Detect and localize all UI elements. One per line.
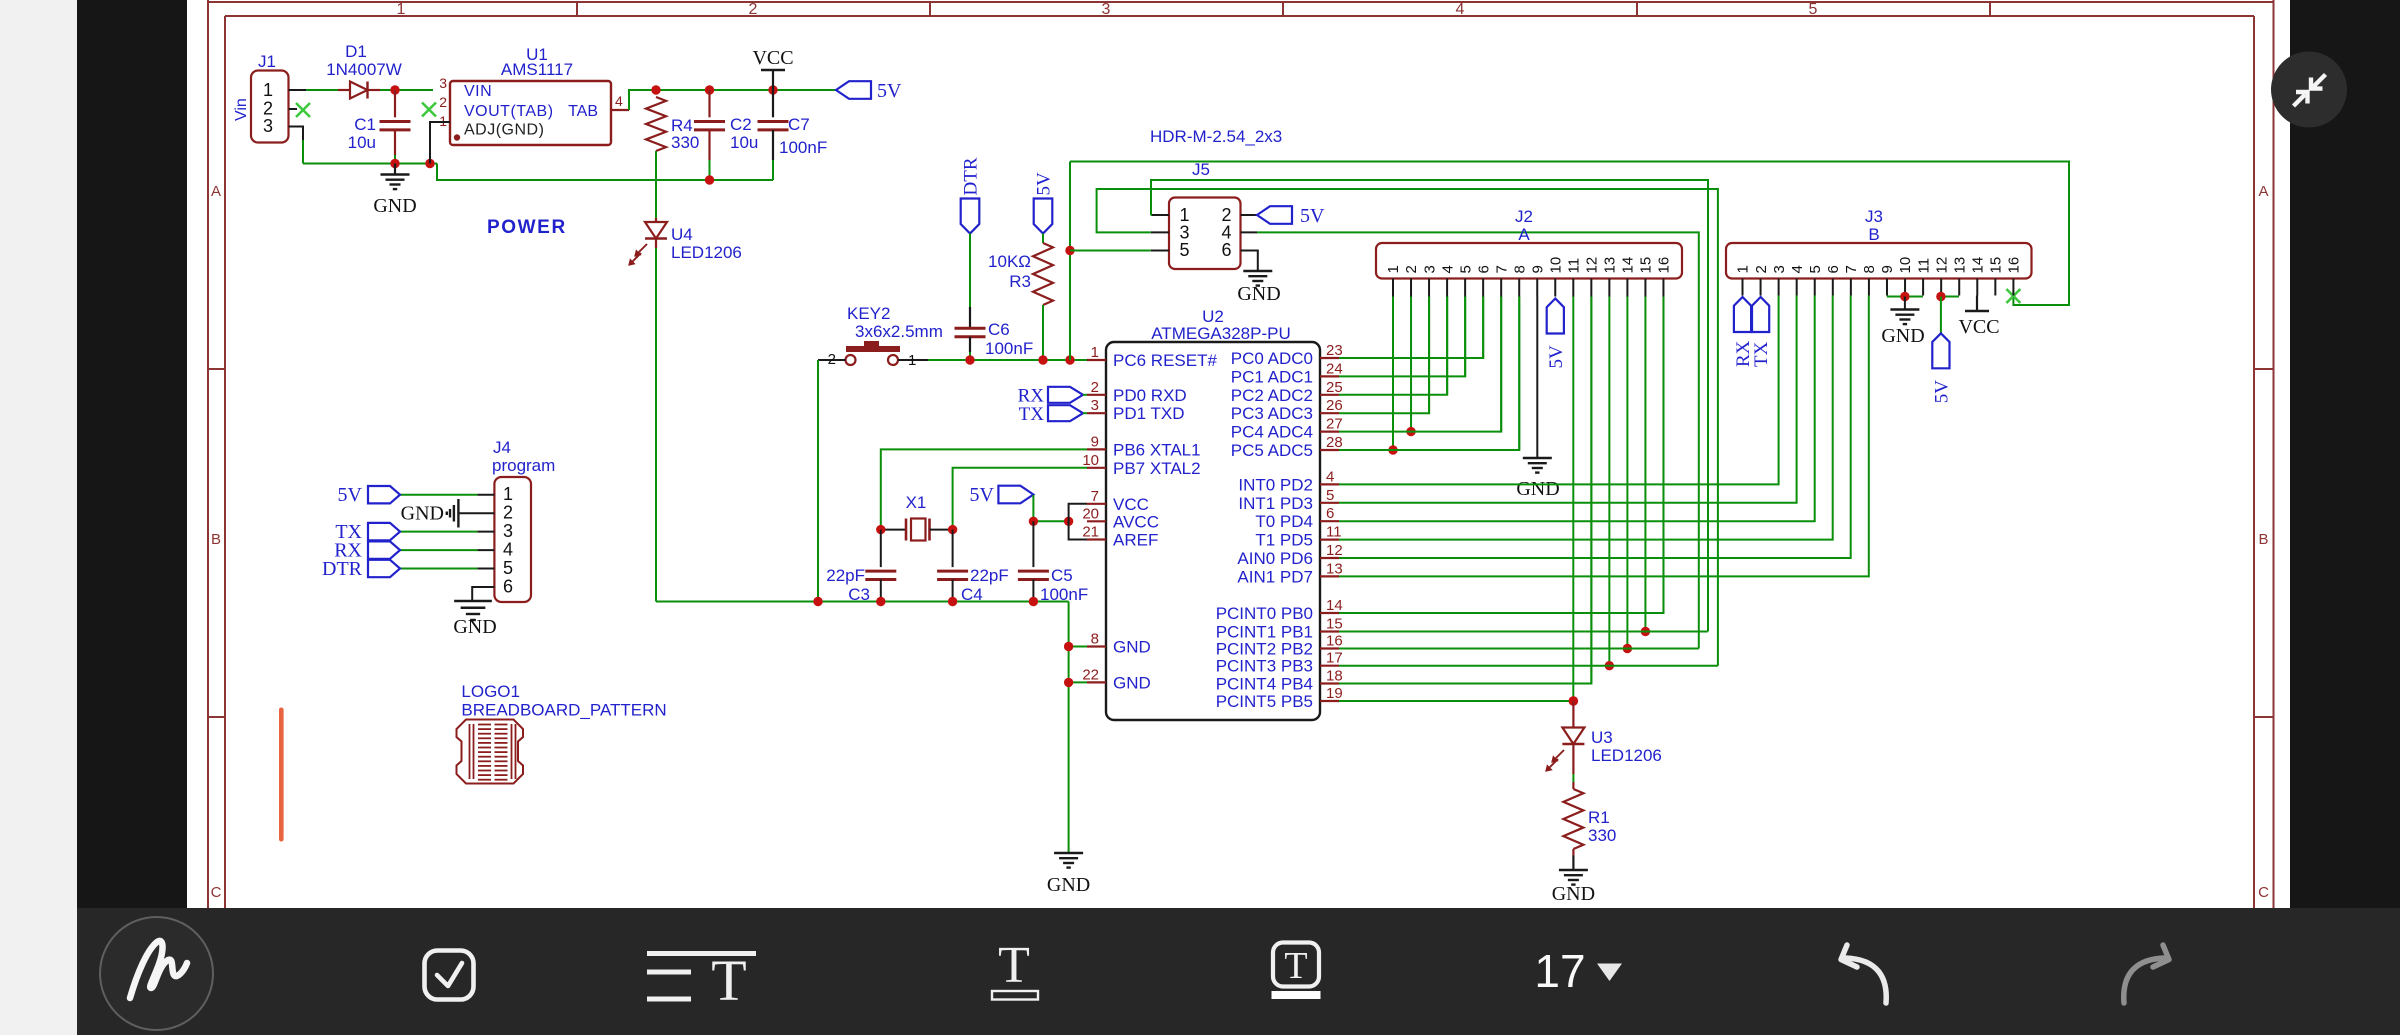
label GND below R1: [1552, 883, 1595, 905]
wire U2 GND8: [1069, 646, 1087, 648]
svg-text:C3: C3: [848, 585, 870, 604]
label U3: [1591, 728, 1613, 747]
net flag 5V at power rail: [836, 80, 902, 102]
svg-text:J2: J2: [1515, 207, 1533, 226]
svg-text:GND: GND: [1047, 874, 1090, 896]
VCC symbol at J3.14: [1965, 296, 1989, 312]
svg-text:17: 17: [1326, 650, 1343, 667]
J4 pin2 GND tie: [447, 499, 495, 528]
svg-text:PC5 ADC5: PC5 ADC5: [1231, 441, 1313, 460]
wire PC1 to J2.5: [1339, 297, 1465, 377]
net flag TX at U2.3: [1019, 404, 1087, 425]
label 10K ohm: [988, 252, 1031, 271]
svg-text:4: 4: [615, 93, 623, 109]
wire J2 pin 3: [1428, 297, 1430, 414]
junction U1 ADJ: [425, 159, 434, 168]
svg-text:5: 5: [1809, 1, 1818, 18]
net flag RX at U2.2: [1018, 386, 1087, 407]
wire PB0 to J2.16: [1339, 297, 1664, 614]
U1 pin number 4: [615, 93, 623, 109]
wire J2 pin 12: [1590, 297, 1592, 684]
svg-text:5V: 5V: [1931, 380, 1952, 404]
wire J2 pin 7: [1500, 297, 1502, 432]
svg-text:Vin: Vin: [233, 98, 250, 121]
svg-text:5V: 5V: [877, 80, 902, 102]
svg-text:11: 11: [1566, 258, 1583, 274]
U2 pin 5 INT1 PD3: [1238, 487, 1339, 513]
svg-text:PB7 XTAL2: PB7 XTAL2: [1113, 459, 1201, 478]
svg-text:10: 10: [1082, 452, 1099, 469]
svg-text:PB6 XTAL1: PB6 XTAL1: [1113, 440, 1201, 459]
svg-text:22pF: 22pF: [970, 566, 1009, 585]
svg-text:5V: 5V: [1300, 205, 1325, 227]
label KEY2: [847, 304, 890, 323]
svg-text:5: 5: [1457, 265, 1474, 273]
label BREADBOARD_PATTERN: [461, 701, 666, 720]
J4 pin4 wire: [400, 549, 494, 551]
net flag 5V at J2.10: [1546, 299, 1567, 369]
svg-text:B: B: [211, 531, 221, 548]
label J4: [493, 438, 511, 457]
resistor R1 330: [1563, 782, 1583, 856]
label ATMEGA328P-PU: [1151, 324, 1291, 343]
svg-text:LED1206: LED1206: [671, 243, 742, 262]
label R4: [671, 116, 693, 135]
net flag 5V at J3.12: [1931, 333, 1952, 403]
label 22pF C4: [970, 566, 1009, 585]
svg-text:7: 7: [1091, 488, 1099, 505]
junction C6 reset: [965, 355, 974, 364]
svg-text:BREADBOARD_PATTERN: BREADBOARD_PATTERN: [461, 701, 666, 720]
U2 pin 20 AVCC: [1082, 505, 1159, 531]
label LED1206 U4: [671, 243, 742, 262]
svg-text:A: A: [2258, 183, 2268, 200]
junction AVCC: [1064, 517, 1073, 526]
label GND at C1: [373, 195, 416, 217]
wire J2 pin 6: [1482, 297, 1484, 359]
svg-text:4: 4: [1326, 468, 1334, 485]
svg-text:330: 330: [1588, 826, 1616, 845]
svg-text:9: 9: [1091, 433, 1099, 450]
svg-text:10: 10: [1547, 257, 1564, 274]
U2 pin 7 VCC: [1087, 488, 1149, 514]
capacitor C3 22pF: [865, 530, 896, 602]
wire PC0 to J2.6: [1339, 297, 1483, 359]
svg-text:23: 23: [1326, 342, 1343, 359]
svg-text:5V: 5V: [1034, 172, 1055, 196]
svg-text:C5: C5: [1051, 566, 1073, 585]
header J4: [494, 477, 531, 602]
svg-text:GND: GND: [1881, 325, 1924, 347]
label GND below U2: [1047, 874, 1090, 896]
label LOGO1: [461, 682, 520, 701]
label GND at J4.2: [401, 503, 444, 525]
junction X1 right: [948, 525, 957, 534]
net flag 5V at J4.1: [338, 484, 400, 506]
svg-text:PD0 RXD: PD0 RXD: [1113, 386, 1187, 405]
junction C2 top: [705, 85, 714, 94]
wire reset top run to J3.16: [1070, 162, 2069, 306]
U2 pin 28 PC5 ADC5: [1231, 434, 1343, 460]
svg-text:3: 3: [1771, 265, 1788, 273]
junction GND8: [1064, 642, 1073, 651]
svg-text:28: 28: [1326, 434, 1343, 451]
left black bar: [77, 0, 187, 908]
net flag TX at J3.2: [1751, 297, 1772, 367]
svg-text:GND: GND: [1237, 283, 1280, 305]
svg-text:26: 26: [1326, 397, 1343, 414]
wire J2 pin 5: [1464, 297, 1466, 377]
svg-text:TX: TX: [1751, 341, 1772, 367]
svg-text:5V: 5V: [970, 484, 995, 506]
svg-text:PC6 RESET#: PC6 RESET#: [1113, 351, 1217, 370]
svg-text:10: 10: [1897, 257, 1914, 274]
U2 pin 11 T1 PD5: [1255, 524, 1341, 550]
svg-text:12: 12: [1933, 257, 1950, 274]
right black bar: [2290, 0, 2400, 908]
wire U2 GND22: [1069, 681, 1087, 683]
label J1: [258, 52, 276, 71]
toolbar text underline icon: [992, 937, 1038, 1000]
header J5: [1151, 198, 1258, 272]
label GND at J5: [1237, 283, 1280, 305]
toolbar redo button: [2124, 945, 2169, 1003]
svg-text:PC4 ADC4: PC4 ADC4: [1231, 423, 1313, 442]
U2 pin 10 PB7 XTAL2: [1082, 452, 1200, 478]
wire PD2 to J3.3: [1339, 296, 1779, 485]
KEY2 pin label 1: [908, 352, 916, 369]
label J5: [1192, 160, 1210, 179]
label X1: [906, 493, 927, 512]
svg-text:J5: J5: [1192, 160, 1210, 179]
svg-text:POWER: POWER: [487, 217, 567, 238]
svg-text:PCINT2 PB2: PCINT2 PB2: [1216, 640, 1313, 659]
svg-text:9: 9: [1879, 265, 1896, 273]
U2 pin 9 PB6 XTAL1: [1087, 433, 1201, 459]
U1 ADJ pin wire: [430, 122, 450, 164]
junction C5 GND rail: [1029, 597, 1038, 606]
ground symbol below R1: [1559, 856, 1588, 885]
svg-text:6: 6: [503, 576, 513, 596]
label R3: [1009, 272, 1031, 291]
svg-text:14: 14: [1620, 257, 1637, 274]
svg-text:24: 24: [1326, 360, 1343, 377]
left gray strip: [0, 0, 77, 1035]
svg-text:A: A: [211, 183, 221, 200]
svg-text:13: 13: [1602, 257, 1619, 274]
wire PC3 to J2.3: [1339, 297, 1429, 414]
wire J2 pin 1: [1388, 297, 1397, 455]
U2 pin 18 PCINT4 PB4: [1216, 668, 1343, 694]
wire DTR to C6: [969, 234, 971, 308]
svg-text:R3: R3: [1009, 272, 1031, 291]
U1 pin number 3: [439, 75, 447, 91]
junction X1 left: [876, 525, 885, 534]
svg-text:11: 11: [1326, 524, 1342, 541]
header J2: [1376, 243, 1682, 279]
MCU U2 ATMEGA328P-PU: [1106, 342, 1320, 720]
wire XTAL1: [881, 449, 1087, 529]
svg-text:C: C: [211, 884, 222, 901]
label 1N4007W: [326, 60, 402, 79]
toolbar pen tool button: [100, 917, 213, 1030]
junction C5 top: [1029, 517, 1038, 526]
wire J1.3 to GND net: [303, 140, 437, 164]
svg-text:PD1 TXD: PD1 TXD: [1113, 404, 1185, 423]
svg-text:INT1 PD3: INT1 PD3: [1238, 494, 1313, 513]
svg-text:3: 3: [439, 75, 447, 91]
svg-text:GND: GND: [1516, 478, 1559, 500]
label LED1206 U3: [1591, 746, 1662, 765]
svg-text:1: 1: [1735, 265, 1752, 273]
label 100nF C5: [1040, 585, 1088, 604]
resistor R4 330: [646, 97, 666, 218]
svg-text:TAB: TAB: [568, 103, 598, 120]
svg-text:C: C: [2258, 884, 2269, 901]
junction VCC C7: [768, 85, 777, 94]
label 100nF C6: [985, 339, 1033, 358]
no-connect X on U1 pin 2: [422, 103, 436, 117]
svg-text:8: 8: [1511, 265, 1528, 273]
wire J5.3 to PB3 riser: [1097, 189, 1718, 666]
ground symbol below U2: [1054, 853, 1083, 868]
svg-text:GND: GND: [373, 195, 416, 217]
svg-text:KEY2: KEY2: [847, 304, 890, 323]
svg-text:3: 3: [503, 521, 513, 541]
sheet frame inner border: [225, 16, 2254, 908]
label VCC: [752, 47, 793, 69]
capacitor C7 100nF: [758, 90, 789, 180]
regulator U1 AMS1117: [450, 81, 611, 145]
svg-text:5: 5: [1179, 240, 1189, 260]
svg-text:2: 2: [1091, 379, 1099, 396]
label 330 R1: [1588, 826, 1616, 845]
label U1: [526, 45, 548, 64]
svg-text:GND: GND: [1552, 883, 1595, 905]
svg-text:C6: C6: [988, 320, 1010, 339]
label 100nF C7: [779, 138, 827, 157]
net flag RX at J4.4: [334, 540, 400, 562]
svg-text:3x6x2.5mm: 3x6x2.5mm: [855, 322, 943, 341]
junction C4 GND rail: [948, 597, 957, 606]
svg-text:U3: U3: [1591, 728, 1613, 747]
wire KEY2.2 to GND rail: [817, 360, 819, 602]
svg-text:C2: C2: [730, 115, 752, 134]
junction reset vertical: [1065, 355, 1074, 364]
svg-text:1: 1: [1091, 344, 1099, 361]
svg-text:GND: GND: [453, 616, 496, 638]
svg-text:9: 9: [1529, 265, 1546, 273]
wire J5.1 to PB1 riser: [1151, 180, 1708, 632]
label AMS1117: [501, 60, 573, 79]
svg-text:2: 2: [749, 1, 758, 18]
svg-text:R1: R1: [1588, 808, 1610, 827]
svg-text:15: 15: [1638, 257, 1655, 274]
wire J2 pin 8: [1518, 297, 1520, 451]
wire J2 pin 2: [1406, 297, 1415, 437]
label 3x6x2.5mm: [855, 322, 943, 341]
svg-text:19: 19: [1326, 685, 1343, 702]
label 10u: [348, 133, 376, 152]
svg-text:B: B: [1868, 225, 1879, 244]
svg-text:3: 3: [263, 116, 273, 136]
wire PC5 to J2.8: [1339, 297, 1519, 451]
junction C2 bottom: [705, 175, 714, 184]
svg-text:VCC: VCC: [752, 47, 793, 69]
wire J5.4 to PB2 riser: [1257, 232, 1699, 648]
svg-text:PC0 ADC0: PC0 ADC0: [1231, 349, 1313, 368]
wire reset vertical riser: [1069, 162, 1071, 361]
svg-text:B: B: [2258, 531, 2268, 548]
svg-text:PCINT3 PB3: PCINT3 PB3: [1216, 657, 1313, 676]
J3 5V bus pins 12-13: [1936, 292, 1959, 334]
U2 pin 8 GND: [1087, 631, 1151, 657]
diode D1 1N4007W: [338, 82, 380, 99]
capacitor C6 100nF: [955, 307, 986, 360]
svg-text:C7: C7: [788, 115, 810, 134]
svg-text:16: 16: [1656, 257, 1673, 274]
J4 pin5 wire: [400, 568, 494, 570]
svg-text:GND: GND: [1113, 638, 1151, 657]
junction R3 reset: [1038, 355, 1047, 364]
wire PB1: [1339, 631, 1708, 633]
svg-text:C1: C1: [354, 115, 376, 134]
wire J2 pin 14: [1623, 297, 1632, 654]
connector J1: [251, 71, 306, 143]
LED U3: [1546, 701, 1584, 771]
junction C1 bottom: [390, 159, 399, 168]
J4 pin3 wire: [400, 531, 494, 533]
svg-text:6: 6: [1475, 265, 1492, 273]
svg-text:25: 25: [1326, 379, 1343, 396]
wire PB3: [1339, 665, 1718, 667]
wire U4 to GND rail: [656, 248, 1069, 602]
svg-text:T0 PD4: T0 PD4: [1255, 512, 1313, 531]
svg-text:1: 1: [263, 80, 273, 100]
J3 GND bus pins 9-11: [1887, 292, 1923, 324]
net flag 5V at AVCC: [970, 484, 1034, 506]
wire D1 to U1 VIN: [380, 89, 433, 91]
svg-text:2: 2: [1403, 265, 1420, 273]
label GND at J2: [1516, 478, 1559, 500]
svg-text:TX: TX: [1019, 404, 1045, 425]
wire PB2: [1339, 648, 1699, 650]
svg-text:5: 5: [1807, 265, 1824, 273]
label 330 R4: [671, 133, 699, 152]
svg-text:5: 5: [503, 558, 513, 578]
svg-text:6: 6: [1221, 240, 1231, 260]
svg-text:100nF: 100nF: [985, 339, 1033, 358]
svg-text:1N4007W: 1N4007W: [326, 60, 402, 79]
svg-text:J3: J3: [1865, 207, 1883, 226]
junction at C1 top: [390, 85, 399, 94]
svg-text:AIN1 PD7: AIN1 PD7: [1237, 567, 1313, 586]
net flag 5V above R3: [1034, 172, 1055, 234]
J4 pin6 ground: [454, 587, 494, 620]
svg-text:T: T: [1284, 945, 1307, 987]
U2 pin 15 PCINT1 PB1: [1216, 616, 1343, 642]
svg-text:2: 2: [1753, 265, 1770, 273]
svg-text:16: 16: [1326, 633, 1343, 650]
wire PB5 to LED: [1339, 700, 1573, 702]
pushbutton KEY2: [818, 341, 928, 365]
wire J2 pin 15: [1641, 297, 1650, 637]
svg-text:DTR: DTR: [961, 157, 982, 195]
svg-text:1: 1: [1385, 265, 1402, 273]
svg-text:GND: GND: [401, 503, 444, 525]
toolbar boxed text icon: [1272, 943, 1321, 1000]
frame column numbers 1-5: [397, 1, 1818, 18]
label C6: [988, 320, 1010, 339]
svg-text:8: 8: [1091, 631, 1099, 648]
U2 pin 24 PC1 ADC1: [1231, 360, 1343, 386]
svg-text:PC1 ADC1: PC1 ADC1: [1231, 367, 1313, 386]
wire GND net to cap rail: [437, 164, 773, 181]
svg-text:17: 17: [1534, 945, 1585, 997]
label J3: [1865, 207, 1883, 226]
U2 pin 13 AIN1 PD7: [1237, 560, 1342, 586]
svg-text:AVCC: AVCC: [1113, 512, 1159, 531]
wire PD5 to J3.6: [1339, 296, 1833, 540]
wire RESET net: [928, 359, 1087, 361]
U1 pin number 2: [439, 94, 447, 110]
label GND at J3: [1881, 325, 1924, 347]
J3 pin stubs: [1743, 279, 2014, 296]
svg-text:C4: C4: [961, 585, 983, 604]
svg-text:PCINT4 PB4: PCINT4 PB4: [1216, 675, 1313, 694]
ground symbol at C1: [381, 164, 410, 190]
KEY2 pin label 2: [828, 351, 836, 368]
wire XTAL2: [953, 468, 1087, 530]
svg-text:22pF: 22pF: [826, 566, 865, 585]
resistor R3 10K: [1033, 234, 1053, 361]
svg-text:14: 14: [1326, 597, 1343, 614]
svg-text:15: 15: [1326, 616, 1343, 633]
collapse button top right: [2271, 52, 2347, 128]
label C3: [848, 585, 870, 604]
label A of J2: [1518, 225, 1530, 244]
svg-text:AIN0 PD6: AIN0 PD6: [1237, 549, 1313, 568]
U1 TAB pin wire: [611, 90, 656, 110]
frame row letters left: [211, 183, 222, 901]
crystal X1: [881, 519, 953, 541]
junction GND22: [1064, 678, 1073, 687]
U2 pin 25 PC2 ADC2: [1231, 379, 1343, 405]
wire PD4 to J3.5: [1339, 296, 1815, 522]
label D1: [345, 42, 367, 61]
junction C3 GND rail: [876, 597, 885, 606]
wire PC4 to J2.7: [1339, 297, 1501, 432]
capacitor C5 100nF: [1018, 521, 1049, 601]
svg-text:100nF: 100nF: [1040, 585, 1088, 604]
U2 pin 2 PD0 RXD: [1087, 379, 1187, 405]
svg-text:INT0 PD2: INT0 PD2: [1238, 475, 1313, 494]
svg-text:18: 18: [1326, 668, 1343, 685]
svg-text:6: 6: [1326, 505, 1334, 522]
svg-text:13: 13: [1951, 257, 1968, 274]
wire GND rail down to GND symbol: [1068, 602, 1070, 854]
label 10u C2: [730, 133, 758, 152]
no-connect X on J3 pin16: [2006, 289, 2020, 303]
U2 pin 6 T0 PD4: [1255, 505, 1339, 531]
wire PD6 to J3.7: [1339, 296, 1851, 559]
svg-text:U4: U4: [671, 225, 693, 244]
U2 pin 26 PC3 ADC3: [1231, 397, 1343, 423]
svg-text:27: 27: [1326, 416, 1343, 433]
net flag RX at J3.1: [1733, 297, 1754, 367]
U2 pin 3 PD1 TXD: [1087, 397, 1185, 423]
label HDR-M-2.54_2x3: [1150, 127, 1282, 146]
